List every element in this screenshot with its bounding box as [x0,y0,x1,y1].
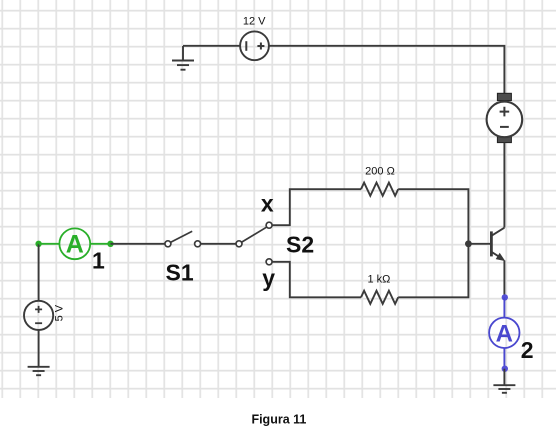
svg-text:y: y [262,265,275,291]
svg-text:12 V: 12 V [243,16,266,28]
ammeter A1 [59,228,90,259]
motor M1 [487,93,523,142]
switch S2 (SPDT, thrown to x) [236,222,272,265]
svg-text:Figura 11: Figura 11 [251,412,306,426]
svg-text:A: A [496,320,513,347]
svg-text:A: A [66,231,84,259]
resistor R2 (zigzag) [361,291,398,304]
wire ammeter 1 node to switch S1 [111,243,165,245]
svg-text:1: 1 [92,247,105,273]
wire (green) node to ammeter 1 [39,243,60,245]
wire 12 V source minus to top ground [183,45,240,47]
node dot (blue, above ammeter 2) [502,294,508,300]
wire emitter to ammeter 2 node [503,260,505,295]
wire (blue) node to ammeter 2 [503,297,505,317]
switch S1 (open) [165,231,201,247]
wire (blue) ammeter 2 to node [503,348,505,369]
transistor Q1 (NPN) [491,228,504,261]
wire S1 to S2 [201,243,236,245]
wire 12 V plus to motor [269,46,505,94]
wire (green) ammeter 1 to node [90,243,110,245]
svg-text:1 kΩ: 1 kΩ [367,274,390,286]
ground (bottom right, below ammeter 2) [493,385,515,393]
voltage source V1 12 V [240,31,269,60]
node dot (base junction) [465,240,472,247]
node dot (green, right of ammeter 1) [107,241,113,247]
ground (bottom left, below 5 V source) [28,367,50,375]
svg-text:2: 2 [521,337,534,363]
wire R2 to base junction [398,244,468,297]
svg-text:S1: S1 [166,260,194,286]
node dot (green, left of ammeter 1) [35,241,41,247]
wire motor to transistor collector [503,143,505,228]
voltage source V2 5 V [24,301,53,330]
svg-text:S2: S2 [286,231,314,257]
svg-text:200 Ω: 200 Ω [365,166,395,178]
ammeter A2 [489,318,519,348]
svg-text:x: x [261,191,274,217]
wire R1 to base junction [398,189,468,244]
wire junction to transistor base [468,243,490,245]
wire S2 y-contact to resistor R2 [272,262,361,298]
node dot (blue, below ammeter 2) [502,366,508,372]
resistor R1 (zigzag) [361,183,398,196]
wire 5 V source to ground [38,330,40,367]
wire node down to 5 V source [38,244,40,301]
ground (top, 12 V source return) [172,46,194,70]
wire node to bottom-right ground [503,369,505,386]
svg-text:5 V: 5 V [54,304,66,321]
wire S2 x-contact to resistor R1 [272,189,361,225]
